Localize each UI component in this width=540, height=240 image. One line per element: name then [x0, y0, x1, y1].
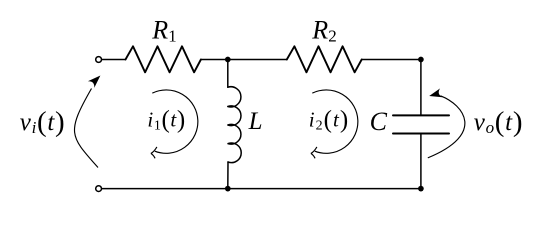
svg-text:vi(t): vi(t)	[20, 106, 66, 138]
svg-text:R1: R1	[151, 16, 176, 46]
svg-text:i1(t): i1(t)	[147, 106, 185, 133]
svg-text:C: C	[370, 107, 388, 136]
svg-text:i2(t): i2(t)	[309, 106, 349, 133]
svg-text:vo(t): vo(t)	[474, 106, 523, 138]
svg-text:L: L	[248, 108, 263, 135]
svg-text:R2: R2	[311, 16, 336, 46]
